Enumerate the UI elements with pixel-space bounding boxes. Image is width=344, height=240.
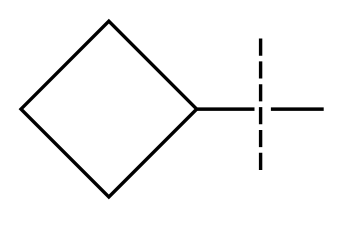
cyclobutane ring (diamond) — [21, 21, 197, 197]
bond from ring to attachment point — [197, 107, 255, 110]
bond segment right of attachment point (methyl) — [271, 107, 324, 110]
dashed attachment-point line — [259, 39, 262, 171]
